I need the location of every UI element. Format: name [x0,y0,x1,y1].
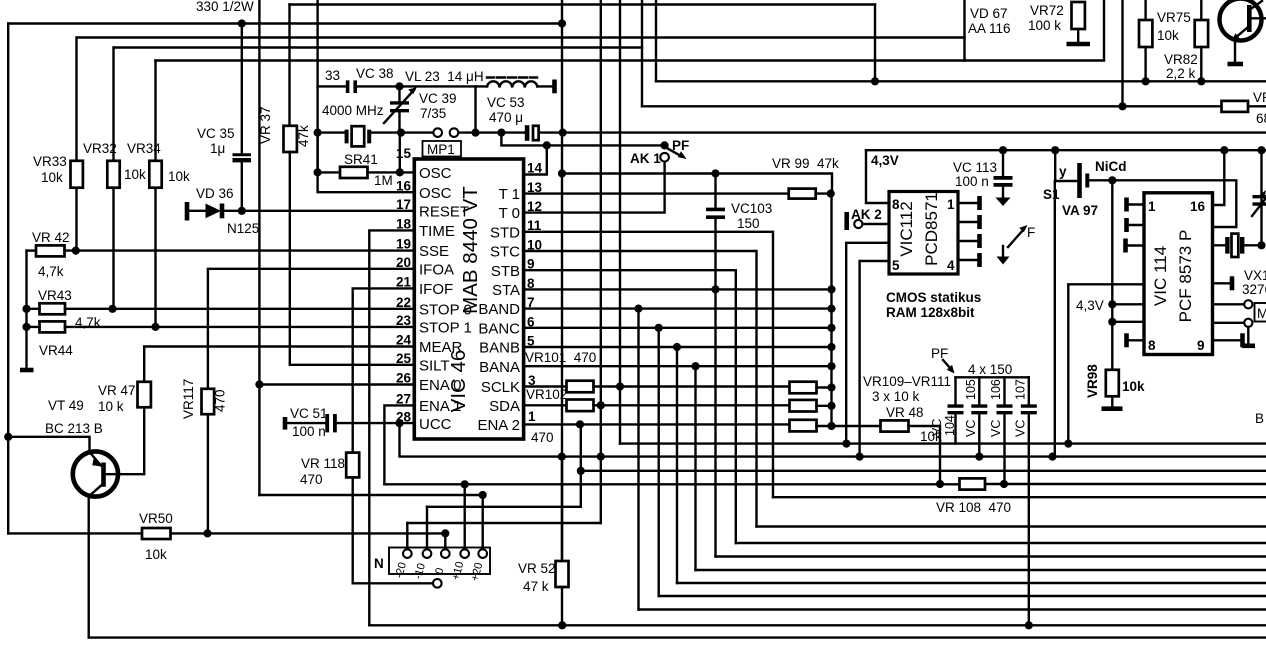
wire ENA2 row right [817,425,881,427]
switch S1 battery VA97 [1055,150,1112,198]
svg-text:470: 470 [213,389,228,412]
svg-text:STB: STB [491,263,520,280]
junction VR44 VR34 [151,323,159,331]
svg-text:MP1: MP1 [427,142,455,157]
wire STC row [524,251,757,527]
wire STB row [524,270,736,543]
junction RESET x242 [238,207,246,215]
svg-text:8: 8 [1148,338,1156,353]
tick stub c [1123,239,1128,253]
resistor VR117 [202,389,215,414]
svg-text:SSE: SSE [419,243,449,260]
wire SSE row right [65,249,415,251]
wire pin row 322 [1213,322,1245,324]
wire VR47 to base [106,407,144,474]
resistor VR32 [107,161,119,188]
wire ENA1 riser [384,405,414,484]
wire AK2 to pin7 [862,223,889,225]
wire VL23 left drop [474,86,476,132]
node N pin +10 [460,549,469,558]
junction crystal right [1257,241,1265,249]
svg-text:BAND: BAND [478,301,520,318]
wire y132 crystal to MP1 [370,131,434,133]
node MP1 contact a [433,128,442,137]
diode VD36 anode bar [185,202,190,221]
svg-text:19: 19 [396,237,411,252]
wire VC39 bottom to 1M [399,133,401,173]
svg-text:VA 97: VA 97 [1062,203,1098,218]
junction VL23 left [471,129,479,137]
wire T0 row to AK1 [524,161,665,212]
svg-text:1: 1 [947,197,955,212]
resistor VR47 [138,382,151,408]
wire VT49 emitter row [8,437,89,452]
resistor VR108 [960,478,986,489]
wire VR48 to VR108 [909,426,941,484]
wire vertical x620 [619,0,621,444]
svg-text:STOP 1: STOP 1 [419,320,472,337]
wire BANB row [524,346,832,348]
junction UCC riser [395,419,403,427]
capacitor VC106 [997,377,1013,484]
resistor VR99 [789,189,816,199]
resistor VR75 [1139,20,1152,47]
wire caps top row [956,376,1029,378]
wire row y497 [773,496,1266,498]
junction BANC drop [655,324,663,332]
wire STOP0 row [27,308,415,310]
svg-text:18: 18 [396,217,412,232]
svg-text:VR34: VR34 [127,141,161,156]
capacitor VC105 [971,377,987,456]
svg-text:470 μ: 470 μ [489,110,523,125]
tick stub b [1124,218,1129,232]
wire ENA1 long row [384,483,959,485]
wire trimmer riser [1260,150,1262,245]
svg-text:BANA: BANA [479,359,520,376]
wire VR32 riser [112,48,114,309]
junction y145 drop [497,129,505,137]
wire left stub x26 [25,251,27,369]
svg-text:VR82: VR82 [1164,52,1198,67]
resistor VR33 [71,161,83,188]
junction VC103 top [711,169,719,177]
resistor VR82 [1195,20,1208,47]
wire bus y81 [656,80,1266,82]
svg-text:100 n: 100 n [955,174,989,189]
crystal SR41 4000MHz [345,126,372,146]
svg-text:BANB: BANB [479,340,520,357]
junction VC39 top [395,82,403,90]
svg-text:4: 4 [947,258,955,273]
junction pin16 top [1220,146,1228,154]
crystal VX115 [1225,234,1244,257]
svg-text:25: 25 [396,351,412,366]
svg-text:47 k: 47 k [523,579,549,594]
wire 43V pin row [1112,303,1144,305]
wire RESET row [221,210,414,212]
svg-text:VIC112: VIC112 [897,201,916,256]
wire SDA row mid [594,404,790,406]
svg-text:VR101 470: VR101 470 [525,350,596,365]
wire BANA drop vertical [694,366,696,570]
svg-text:AK 2: AK 2 [851,207,882,222]
svg-text:ENA 1: ENA 1 [419,398,462,415]
svg-text:100 n: 100 n [292,424,326,439]
junction border base [4,433,12,441]
wire row y556 [716,555,1266,557]
wire STA row [524,288,832,290]
resistor VR111 [790,420,817,432]
wire pin14 riser [524,145,547,174]
tick right stub y283 [1230,276,1235,290]
resistor VR34 [149,161,161,188]
junction VR52 bottom [558,621,566,629]
wire contact to bar [1247,327,1249,345]
svg-text:VR109–VR111: VR109–VR111 [863,374,951,389]
svg-text:4,3V: 4,3V [871,153,899,168]
svg-text:15: 15 [396,146,412,161]
wire SCLK row mid [594,385,790,387]
svg-text:VR 42: VR 42 [32,230,70,245]
svg-text:VC 39: VC 39 [419,91,457,106]
wire bus L1 [8,22,562,24]
wire row y609 [639,608,1266,610]
wire VR50 row left [8,532,142,534]
junction BANB drop [673,343,681,351]
wire zero drop [444,533,446,549]
svg-text:VR 47: VR 47 [98,383,136,398]
wire SSE row [27,249,37,251]
wire VR72 to ground [1077,29,1079,42]
junction plus20 [479,491,487,499]
wire bus L3 with corner to lower feed [114,46,642,48]
svg-text:VC 35: VC 35 [197,126,235,141]
resistor VR72 [1072,2,1085,29]
resistor VR52 [556,561,569,587]
wire 43V riser to pin8 [866,150,889,203]
junction pin5 ucc [856,453,864,461]
svg-text:VR33: VR33 [33,154,67,169]
wire crystal line y132 [318,131,346,133]
wire TIME riser [369,230,414,625]
svg-text:VR 118: VR 118 [301,456,345,471]
svg-text:47k: 47k [296,125,311,147]
junction sclk ext x1068 [1064,440,1072,448]
svg-text:VR102: VR102 [526,387,567,402]
svg-text:ENA 0: ENA 0 [419,377,462,394]
svg-text:22: 22 [396,295,411,310]
wire row y583 [677,582,1266,584]
wire 330 riser x242 [241,24,243,155]
box around VD67 VR72 [965,0,1105,61]
svg-text:16: 16 [396,179,412,194]
svg-text:20: 20 [396,255,411,270]
svg-text:PF: PF [931,346,948,361]
svg-text:470: 470 [531,430,554,445]
svg-text:-10: -10 [412,562,428,580]
svg-text:VR: VR [1253,90,1266,105]
wire left border vertical [7,24,9,534]
wire 43V supply row [866,149,1266,151]
svg-text:14: 14 [527,161,543,176]
svg-text:B: B [1255,411,1264,426]
svg-text:SILT: SILT [419,358,450,375]
node N pin 0 [441,549,450,558]
wire VIC112 pin4 stub [958,259,979,261]
ground VC113 [996,198,1011,207]
wire PF arrow caps [943,360,951,369]
junction T1 VR99 [827,190,835,198]
wire vertical from L5 end [874,5,876,82]
svg-text:T 1: T 1 [499,186,520,203]
junction pin14 riser [543,141,551,149]
junction trimmer top [1257,146,1265,154]
node MP1 contact b [450,128,459,137]
ground VR44 stub [20,368,34,373]
ground VR98 [1102,406,1123,411]
svg-text:VC: VC [964,420,978,437]
junction BANC end [827,324,835,332]
wire y132 MP1 to VC53 [458,131,525,133]
capacitor VC53 [525,125,539,141]
svg-text:4000 MHz: 4000 MHz [322,103,384,118]
svg-text:SDA: SDA [489,398,520,415]
junction x562 y132 [559,129,567,137]
junction SDA end [827,402,835,410]
svg-text:SR41: SR41 [344,152,378,167]
wire SDA row left [524,404,567,406]
svg-text:F: F [1027,225,1035,240]
arrowhead PF caps [947,365,955,374]
junction L1 end x562 [558,19,566,27]
svg-text:PCF 8573 P: PCF 8573 P [1176,230,1195,323]
svg-text:3 x 10 k: 3 x 10 k [872,389,920,404]
junction ENA2 x580 [576,420,584,428]
junction ENA2 end [827,422,835,430]
junction 1M right [396,168,404,176]
svg-text:104: 104 [943,415,957,436]
wire VIC114 pin8 stub [1127,339,1144,341]
svg-text:4,7k: 4,7k [38,264,64,279]
junction VR99 line x562 [558,169,566,177]
junction VR42 VR33 [72,247,80,255]
wire row y543 [736,542,1266,544]
svg-text:VR75: VR75 [1157,10,1191,25]
node contact M upper [1244,300,1252,308]
wire ENA1 row right [985,483,1266,485]
svg-text:10k: 10k [41,170,63,185]
svg-text:PCD8571: PCD8571 [922,192,941,266]
svg-text:VC 51: VC 51 [290,406,328,421]
node MP1 label box [423,141,462,157]
wire minus20 row [407,522,601,524]
svg-text:16: 16 [1190,199,1206,214]
resistor VR101 [567,381,594,393]
capacitor VC51 [285,414,337,432]
wire minus20 drop [406,523,408,550]
capacitor VC113 [994,150,1013,197]
svg-text:9: 9 [1197,338,1205,353]
wire bus y106 right part [1248,105,1266,107]
svg-text:1: 1 [1148,199,1156,214]
wire bottom long line [89,636,1266,638]
wire y132 VC53 cap to right edge [539,131,1266,133]
svg-text:VC: VC [1014,420,1028,437]
resistor VR37 [284,126,297,152]
wire VR33 riser [75,38,77,251]
wire y470 row [581,470,1266,472]
wire ENA0 riser x259 [258,0,260,495]
svg-text:68: 68 [1256,111,1266,126]
svg-text:CMOS statikus: CMOS statikus [886,290,981,305]
resistor 1M [340,167,368,178]
svg-text:STC: STC [490,244,520,261]
wire x580 riser [580,424,582,506]
junction zero VR50 [441,529,449,537]
junction STA drop [711,285,719,293]
junction y321 [1108,318,1116,326]
svg-text:VR50: VR50 [139,511,173,526]
svg-text:VC: VC [930,419,944,436]
wire VC38 to VC39 [357,85,476,87]
svg-text:7/35: 7/35 [420,106,446,121]
wire vertical x656 feed [655,0,657,81]
node F adjust mark [997,225,1028,265]
capacitor VC103 [706,174,725,290]
junction VC39 bottom [397,129,405,137]
junction AK1 [661,141,669,149]
svg-text:ENA 2: ENA 2 [477,417,520,434]
node test contact [433,579,442,588]
capacitor VC107 [1021,377,1037,625]
svg-text:AA 116: AA 116 [968,21,1011,36]
junction 330 node [238,19,246,27]
wire row y526 [757,525,1266,527]
wire VIC112 pin3 stub [958,240,979,242]
pin 1 tick [977,196,982,210]
junction y470 start [577,467,585,475]
junction STA end [827,285,835,293]
svg-text:RESET: RESET [419,204,469,221]
svg-text:VC103: VC103 [731,201,772,216]
junction VR43 left [22,305,30,313]
svg-text:4 x 150: 4 x 150 [968,362,1012,377]
tick stub a [1124,198,1129,212]
junction L5 y81 [871,77,879,85]
svg-text:S1: S1 [1043,187,1060,202]
wire SILT riser [290,152,415,365]
junction ENA0 [255,380,263,388]
svg-text:2,2 k: 2,2 k [1166,66,1196,81]
wire bus y106 [642,105,1222,107]
svg-text:STD: STD [490,225,520,242]
wire VIC112 pin2 stub [958,221,979,223]
wire pin5 riser [860,261,889,457]
wire SCLK row left [524,385,567,387]
resistor VR102 [567,400,594,412]
svg-text:VR 99 47k: VR 99 47k [772,156,839,171]
wire SDA row right [817,405,832,407]
junction 1M left [314,168,322,176]
svg-text:107: 107 [1014,379,1028,400]
svg-text:10k: 10k [1157,28,1179,43]
wire crystal row [1213,244,1262,246]
svg-text:VD 67: VD 67 [970,6,1008,21]
wire pin row 304 [1213,303,1245,305]
junction BANB end [827,343,835,351]
resistor VR118 [346,453,359,478]
svg-text:21: 21 [396,275,412,290]
wire IFOF row [353,288,415,452]
wire VR99 row y173 [563,174,832,194]
junction SCLK x620 [616,382,624,390]
wire STD row [524,232,773,497]
junction BANA drop [691,362,699,370]
svg-text:5: 5 [892,258,900,273]
wire pin16 riser [1213,150,1225,205]
wire bus L5 top [290,3,876,5]
svg-text:NiCd: NiCd [1095,159,1127,174]
svg-text:VC: VC [989,420,1003,437]
junction VC105 ucc [975,453,983,461]
svg-text:STOP 0: STOP 0 [419,302,472,319]
wire BAND row [524,307,832,309]
wire x1053 riser [1054,181,1056,457]
wire BANC drop vertical [658,328,660,596]
svg-text:23: 23 [396,313,412,328]
wire bus x831 vertical [830,194,832,426]
svg-text:y: y [1059,164,1067,179]
resistor VR110 [790,400,817,412]
wire VIC114 right stub y283 [1213,282,1232,284]
svg-text:8: 8 [892,197,900,212]
svg-text:17: 17 [396,197,411,212]
junction AK2 sclk ext [842,440,850,448]
svg-text:VR 48: VR 48 [886,405,924,420]
svg-text:N: N [374,556,384,571]
wire STOP1 row [27,326,415,328]
svg-text:106: 106 [989,379,1003,400]
wire row y596 [659,595,1266,597]
junction 43V VIC114 [1108,300,1116,308]
junction VR75 y81 [1142,77,1150,85]
junction BAND drop [634,305,642,313]
tick pin8 stub [1124,333,1129,347]
svg-text:10k: 10k [124,167,146,182]
svg-text:470: 470 [300,472,323,487]
svg-text:PF: PF [672,138,689,153]
wire VR52 bottom [561,587,563,625]
resistor VR98 [1106,370,1119,397]
wire VT49 collector [87,495,89,638]
svg-text:10 k: 10 k [98,399,124,414]
svg-text:N125: N125 [227,221,259,236]
junction VR82 y81 [1197,77,1205,85]
capacitor VC35 [233,153,252,162]
diode VD36 cathode bar [220,204,225,219]
op-amp U2 VIC112 PCD8571 body [889,192,958,275]
svg-text:VIC 114: VIC 114 [1151,246,1170,306]
junction UCC x562 [558,453,566,461]
wire OSC16 riser [318,172,415,192]
wire Q2 emitter [1234,39,1236,62]
svg-text:AK 1: AK 1 [630,151,661,166]
wire minus10 drop [426,507,428,550]
svg-text:VR43: VR43 [38,288,72,303]
wire pin9 stub [1213,339,1242,341]
wire MEAR row [144,347,414,382]
